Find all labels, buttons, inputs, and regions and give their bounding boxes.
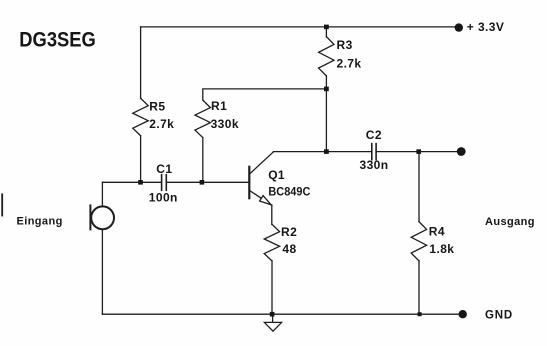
left margin artifact line [1,194,3,215]
svg-text:Eingang: Eingang [17,216,63,228]
wire R1 lower lead (R1 to base wire) [202,138,204,183]
capacitor C1 [162,175,167,191]
resistor R4 [411,222,426,261]
wire R4 lower lead to ground rail [418,261,420,314]
junction node R3 top rail [324,25,329,30]
wire emitter to R2 [271,205,273,224]
wire R3 lower lead (R3 through mid node down to collector wire) [325,76,327,152]
svg-text:GND: GND [485,310,513,322]
wire base wire left (input to C1) [102,181,161,183]
resistor R2 [264,224,279,261]
svg-text:C2: C2 [366,128,382,142]
wire R5 lower lead (R5 to base wire) [140,136,142,183]
svg-text:R3: R3 [337,38,353,52]
terminal dot GND [459,310,467,318]
junction node R1 base wire [200,180,205,185]
terminal dot output [457,147,466,156]
transistor Q1 base bar [248,167,250,198]
wire microphone lower lead [101,229,103,314]
wire microphone upper lead [101,182,103,206]
wire R3 upper lead (top rail to R3) [325,27,327,37]
svg-text:Q1: Q1 [268,168,285,182]
wire R5 upper lead (top rail to R5) [140,27,142,98]
transistor Q1 collector diagonal [250,152,273,174]
wire top rail +3.3V [141,26,455,28]
svg-text:R4: R4 [429,225,445,239]
wire collector/output right (C2 to output dot) [376,151,457,153]
wire R4 upper lead (output wire to R4) [418,152,420,222]
junction node R3 collector wire [324,149,329,154]
svg-text:2.7k: 2.7k [337,56,362,70]
wire bottom ground rail [102,313,459,315]
wire base wire right (C1 to Q1 base) [166,181,248,183]
svg-text:1.8k: 1.8k [429,242,454,256]
svg-text:100n: 100n [149,190,178,204]
svg-text:330n: 330n [360,158,389,172]
terminal dot +3.3V [455,23,463,31]
svg-text:2.7k: 2.7k [149,117,174,131]
ground symbol stub [272,314,274,322]
junction node R4 ground rail [418,312,422,316]
wire R2 lower lead to ground rail [271,261,273,314]
svg-text:Ausgang: Ausgang [485,216,535,228]
svg-text:330k: 330k [211,117,239,131]
svg-text:R2: R2 [281,225,297,239]
wire collector/output left (Q1 to C2) [273,151,371,153]
transistor Q1 emitter diagonal [250,191,272,205]
junction node R2 ground rail [270,312,275,317]
resistor R3 [319,37,334,76]
microphone electret capsule (Eingang) [90,205,114,229]
junction node R5 base wire [138,180,143,185]
svg-text:C1: C1 [156,162,172,176]
resistor R5 [133,98,148,136]
junction node R4 output wire [416,149,421,154]
resistor R1 [195,100,210,138]
transistor Q1 emitter arrow [260,196,271,205]
svg-text:DG3SEG: DG3SEG [19,28,96,51]
svg-text:48: 48 [282,242,296,256]
svg-text:+ 3.3V: + 3.3V [467,20,504,34]
svg-text:R5: R5 [149,99,165,113]
junction node R1/R3 mid [324,87,329,92]
wire R1 top horizontal (R1 to R3 mid node) [203,89,327,100]
svg-text:BC849C: BC849C [268,184,310,198]
svg-text:R1: R1 [211,99,227,113]
ground symbol triangle [264,322,281,331]
capacitor C2 [372,144,376,160]
